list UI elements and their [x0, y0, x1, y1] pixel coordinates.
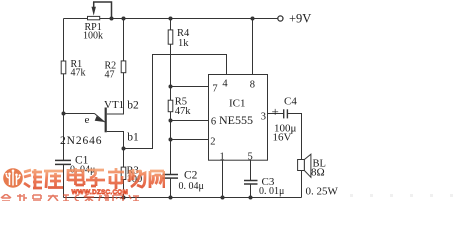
svg-text:1: 1	[220, 151, 225, 162]
resistor R1	[61, 61, 66, 74]
svg-text:4: 4	[222, 78, 228, 89]
wire pin 6 stub	[171, 120, 209, 122]
node junction RP1 wiper / top rail	[110, 17, 114, 21]
wire pin 5 to C3	[250, 160, 252, 180]
node junction pin6	[169, 119, 173, 123]
svg-text:47k: 47k	[175, 106, 192, 117]
svg-text:0. 25W: 0. 25W	[306, 186, 339, 198]
node junction pin2	[169, 138, 173, 142]
wire pin7 node to R5	[170, 87, 172, 101]
emitter arrow	[95, 114, 105, 123]
wire R2 column upper	[123, 19, 125, 61]
wire pin6 node to pin2 node	[170, 121, 172, 140]
svg-text:C2: C2	[184, 169, 198, 181]
svg-text:100k: 100k	[83, 31, 103, 42]
node junction R2 column / top rail	[122, 17, 126, 21]
node junction R3 / ground rail	[122, 196, 126, 200]
watermark logo	[2, 167, 24, 189]
resistor R3	[121, 167, 126, 179]
wire pin 1 to ground rail	[222, 160, 224, 197]
svg-text:47k: 47k	[71, 68, 86, 79]
label C3 value	[259, 176, 284, 197]
svg-text:b1: b1	[127, 131, 139, 143]
wire b1 node to R3	[123, 149, 125, 168]
watermark url WWW.DZSC.COM	[72, 189, 129, 196]
label R2 value	[105, 60, 117, 80]
wire left rail lower	[63, 74, 65, 161]
wire pin 7 stub	[171, 86, 209, 88]
svg-text:IC1: IC1	[229, 98, 246, 110]
watermark row 全球最大IC采购网站	[0, 194, 180, 201]
svg-text:47: 47	[105, 69, 115, 80]
resistor R4	[168, 30, 173, 44]
svg-text:16V: 16V	[273, 132, 292, 144]
svg-text:C4: C4	[284, 96, 297, 108]
capacitor C2	[163, 175, 179, 179]
resistor R2	[121, 61, 126, 73]
node junction b1 / R3 / reset	[122, 147, 126, 151]
svg-text:3: 3	[261, 112, 266, 123]
svg-text:5: 5	[248, 151, 253, 162]
wire C1 to ground rail	[63, 164, 65, 197]
node junction pin1 / ground rail	[221, 196, 225, 200]
wire top rail +9V	[64, 18, 278, 20]
svg-text:8Ω: 8Ω	[311, 167, 325, 179]
node junction pin8 / top rail	[251, 17, 255, 21]
wire R2 to base b2	[107, 73, 124, 114]
label R4 value	[177, 28, 190, 49]
capacitor C4	[284, 109, 288, 118]
node junction C3 / ground rail	[249, 196, 253, 200]
wire R3 to ground rail	[123, 180, 125, 198]
capacitor C3	[244, 181, 258, 185]
svg-text:b2: b2	[127, 100, 139, 112]
label R3 value	[127, 166, 143, 186]
label R1 value	[71, 59, 86, 78]
wire pin 3 stub	[268, 113, 284, 115]
wire C3 to ground rail	[250, 184, 252, 198]
wire pin 8 to top rail	[252, 19, 254, 75]
node junction emitter / left rail	[62, 112, 66, 116]
node junction R4 / top rail	[169, 17, 173, 21]
label C1 value	[70, 154, 95, 175]
capacitor C1	[55, 160, 71, 164]
svg-text:1k: 1k	[178, 38, 189, 49]
potentiometer RP1	[88, 2, 112, 20]
node junction pin7	[169, 85, 173, 89]
svg-text:VT1: VT1	[104, 99, 124, 111]
wire C2 to ground rail	[170, 178, 172, 197]
wire C4 to speaker	[287, 114, 301, 160]
IC U1 IC1 NE555 timer box	[209, 75, 268, 161]
wire pin 2 stub	[171, 139, 209, 141]
svg-text:8: 8	[250, 79, 255, 90]
label RP1	[83, 22, 103, 42]
resistor R5	[168, 100, 173, 112]
svg-text:2N2646: 2N2646	[60, 135, 102, 147]
terminal +9V	[278, 16, 283, 21]
wire emitter	[64, 113, 95, 115]
wire pin2 node to C2	[170, 140, 172, 175]
svg-text:0. 04μ: 0. 04μ	[179, 181, 204, 192]
wire speaker to ground rail	[301, 171, 303, 198]
svg-text:NE555: NE555	[219, 113, 253, 127]
label R5 value	[175, 97, 192, 117]
label BL speaker value	[306, 159, 339, 198]
svg-text:+: +	[272, 104, 279, 119]
svg-text:e: e	[85, 114, 90, 126]
faint remnant dots bottom right	[350, 194, 460, 197]
label IC1 NE555	[219, 98, 253, 128]
svg-text:0. 01μ: 0. 01μ	[259, 186, 284, 197]
speaker BL	[298, 154, 311, 177]
watermark text 维库电子市场网	[23, 167, 165, 190]
label C4 value	[272, 96, 298, 144]
label C2 value	[179, 169, 204, 192]
svg-text:6: 6	[211, 117, 216, 128]
wire b1 node to reset pin4	[124, 55, 227, 149]
svg-text:+9V: +9V	[289, 12, 311, 26]
wire base b1	[107, 132, 124, 149]
svg-text:7: 7	[212, 84, 217, 95]
wire R4 to pin7 node	[170, 44, 172, 86]
wire bottom rail	[64, 197, 302, 199]
transistor VT1 bar	[105, 108, 107, 133]
wire R4 column upper	[170, 19, 172, 30]
svg-text:2: 2	[210, 137, 215, 148]
wire left rail	[63, 19, 65, 62]
node junction C2 / ground rail	[169, 196, 173, 200]
wire R5 to pin6 node	[170, 112, 172, 121]
